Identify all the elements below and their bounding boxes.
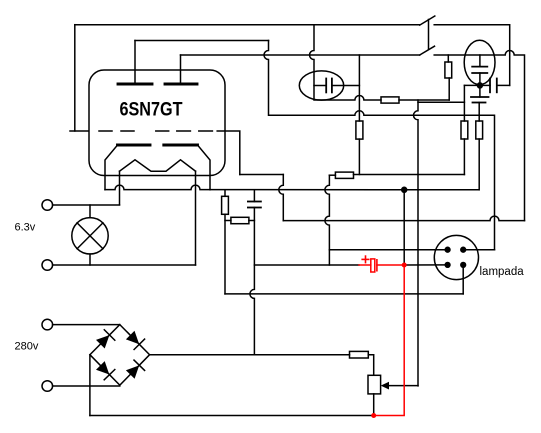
resistor R3 body — [335, 172, 353, 178]
tube V1 anode 1 lead — [134, 41, 136, 85]
svg-text:6.3v: 6.3v — [15, 221, 36, 233]
potentiometer P1 bottom lead — [373, 394, 375, 416]
tube V1 grid lead right — [217, 131, 240, 175]
capacitor C1 circle — [299, 71, 343, 100]
red electrolytic capacitor C6 and red wires — [359, 256, 407, 418]
resistor R6 body — [461, 121, 468, 139]
capacitor C2 plates inside V2 — [472, 66, 487, 68]
svg-text:280v: 280v — [15, 341, 39, 353]
wire x=418 down to potentiometer wiper, hop over y=115.3 — [414, 100, 418, 386]
resistor R8 right lead — [249, 220, 255, 222]
tube V1 cathode 1 — [118, 144, 151, 147]
resistor R2 bottom lead down to y=293.9 — [224, 214, 226, 294]
switch gang link — [428, 20, 430, 50]
switch S1 lever — [420, 16, 435, 25]
capacitor C1 plates — [325, 79, 327, 93]
capacitor C4 bottom lead — [478, 103, 480, 122]
wire left drop x=74.8 — [74, 25, 76, 131]
capacitor C5 top lead — [253, 190, 255, 202]
wire drop x=314 hop over y=55 then right y=100 to R4 — [310, 25, 382, 100]
lamp L1 X — [77, 223, 103, 249]
lamp L1 (pilot) circle — [72, 218, 108, 254]
resistor R3 left lead — [329, 174, 335, 176]
lamp L1 bottom lead — [89, 254, 91, 265]
red junction dot on ground rail — [371, 413, 376, 418]
resistor R5 bottom lead x=449.2 — [448, 78, 450, 100]
capacitor C6 box plate — [371, 259, 375, 272]
node dot A — [477, 83, 482, 88]
terminal 6.3v upper — [42, 200, 53, 211]
lamp socket pin 1 — [445, 247, 450, 252]
resistor R8 left lead — [225, 220, 231, 222]
capacitor C3 plates — [489, 79, 491, 93]
capacitor C6 left lead — [359, 264, 371, 266]
wire y=220.6 from x=283.3 to x=524.5 with hop over x=494.5 — [283, 216, 524, 221]
wire 6.3v upper y=205 — [53, 204, 120, 206]
tube V1 heater pin right — [195, 171, 197, 265]
wire lamp pin1 y=249.7 — [329, 249, 447, 251]
resistor R5 body — [445, 62, 452, 78]
wire x=329.4 down, hops over y=189.8 and y=220.6 — [325, 175, 330, 265]
svg-text:lampada: lampada — [480, 266, 525, 278]
wire plus rail y=354.7 — [150, 354, 350, 356]
wire y=174.5 from R3 to R6 — [354, 174, 465, 176]
resistor R2 body (under tube) — [222, 196, 229, 214]
wire node A to C3 — [480, 84, 490, 86]
wire y=293.9 (lamp pin 4 to R2) — [225, 293, 463, 295]
capacitor C3 right lead — [497, 84, 510, 86]
tube V2 (circled, top right) inner lead — [479, 55, 481, 67]
wire 280v lower — [53, 385, 120, 387]
resistor R5 top lead — [447, 55, 449, 62]
capacitor C2 bottom lead to node — [479, 73, 481, 85]
capacitor C1 (circled) left lead — [314, 85, 326, 87]
wire anode2 top y=55 — [181, 54, 420, 56]
wire node A down to C4 — [479, 85, 481, 97]
resistor R6 bottom lead to y=174.5 — [463, 139, 465, 175]
wire drop x=268.5 hop over y=55 then right y=115.3 — [264, 41, 495, 250]
resistor R7 bottom lead — [478, 139, 480, 190]
wire anode1 top y=40.5 — [135, 40, 269, 42]
wire x=283.3 down, hop over y=189.8 — [279, 175, 284, 221]
lamp socket pin 3 — [445, 263, 450, 268]
wire black drop x=404.2 from dot on y=189.8 — [403, 190, 405, 265]
tube V1 anode 2 lead — [180, 55, 182, 84]
resistor R9 body — [350, 351, 369, 358]
capacitor C1 right lead — [332, 85, 360, 87]
wire y=174.5 left part from grid drop — [240, 174, 283, 176]
resistor R1 bottom lead — [358, 139, 360, 174]
svg-text:6SN7GT: 6SN7GT — [120, 99, 183, 120]
tube V2 ellipse — [464, 40, 495, 84]
diode D4 (bottom-right edge) — [126, 360, 145, 379]
tube V1 base bottom with pin arches — [105, 185, 210, 190]
red node dot — [402, 263, 407, 268]
resistor R1 body — [356, 121, 363, 139]
tube V1 cathode 1 lead — [105, 145, 118, 190]
resistor R1 vertical x=359.4 top lead — [358, 55, 360, 121]
resistor R9 right lead to pot — [368, 355, 373, 376]
wire screen rail y=189.8 (tube base to R7) — [210, 189, 479, 191]
tube V1 anode plate 1 — [118, 83, 152, 86]
tube V1 grid (dashed) — [70, 130, 212, 132]
wire ground rail y=415.5 — [90, 415, 374, 417]
wire S2 right y=55 with hop over x=509.7 — [434, 51, 524, 221]
resistor R8 body (horizontal) — [231, 217, 249, 223]
lamp socket circle — [434, 235, 478, 279]
wire y=265 black left part — [254, 264, 359, 266]
wire S1 right y=24.7 — [434, 25, 510, 86]
resistor R4 horizontal body — [381, 97, 399, 103]
capacitor C4 plates — [471, 96, 489, 98]
resistor R7 body — [476, 121, 483, 139]
diode D1 (left-top edge) — [96, 330, 115, 349]
wire top rail y=24.7 — [75, 24, 420, 26]
capacitor C6 right plate — [376, 260, 378, 271]
resistor R2 top lead — [224, 190, 226, 197]
tube V1 heater zigzag — [120, 160, 196, 171]
junction dot on y=189.8 — [402, 187, 407, 192]
wire node A left — [464, 84, 480, 86]
wire R4 right y=100 to x=449.2 — [399, 99, 449, 101]
lamp socket pin 4 — [461, 263, 466, 268]
tube V1 cathode 2 lead — [198, 145, 211, 190]
lamp L1 top lead — [89, 205, 91, 218]
red wire down x=404.2 — [374, 265, 405, 416]
wire pin2 to x=494.5 — [463, 249, 494, 251]
diode D2 (top-right edge) — [126, 331, 145, 350]
wire pin4 down then left — [462, 265, 464, 294]
terminal 280v lower — [42, 381, 53, 392]
bridge rectifier diamond — [90, 325, 150, 386]
bridge minus drop x=89.9 — [89, 355, 91, 416]
diode D3 (left-bottom edge) — [96, 361, 115, 380]
tube V1 cathode 2 — [164, 144, 198, 147]
terminal 280v upper — [42, 319, 53, 330]
potentiometer P1 body — [368, 375, 381, 394]
wire 280v upper — [53, 324, 120, 326]
tube V1 anode plate 2 — [165, 83, 197, 86]
wire x=464.4 down to R6 — [463, 85, 465, 121]
capacitor C5 bottom lead down to +rail, hop over y=293.9 — [250, 208, 255, 355]
capacitor C5 plates — [248, 201, 261, 203]
wire 6.3v lower y=265 — [53, 264, 196, 266]
switch S2 lever — [420, 46, 435, 55]
lamp socket pin 2 — [461, 247, 466, 252]
wire pin3 left to red node — [404, 264, 447, 266]
tube V1 heater pin left — [119, 171, 121, 205]
potentiometer P1 wiper arrow — [387, 385, 418, 387]
terminal 6.3v lower — [42, 260, 53, 271]
wire x=418 junction branch right y=102.3 — [418, 101, 464, 103]
capacitor C6 plus sign — [362, 258, 369, 260]
capacitor C6 right lead to node — [377, 264, 404, 266]
tube V1 envelope — [89, 70, 225, 176]
